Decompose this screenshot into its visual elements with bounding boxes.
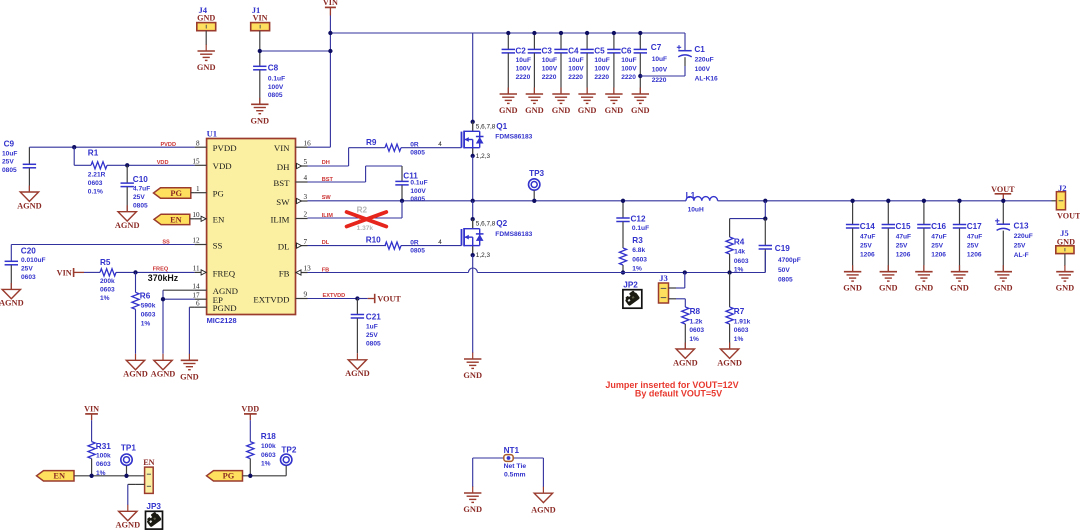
ground under C5 xyxy=(578,88,597,116)
junction J1/C8 xyxy=(258,49,262,53)
net FB wire xyxy=(308,251,766,273)
svg-text:0603: 0603 xyxy=(689,327,704,334)
junction TP3/SW xyxy=(532,199,536,203)
junction SW/C12 xyxy=(621,199,625,203)
capacitor C19 xyxy=(759,219,801,284)
svg-text:FDMS86183: FDMS86183 xyxy=(495,231,532,238)
connector J5 (GND) xyxy=(1056,228,1075,266)
svg-text:0603: 0603 xyxy=(734,258,749,265)
jumper JP2 xyxy=(623,281,642,309)
net VDD wire xyxy=(127,160,194,166)
resistor R7 xyxy=(726,273,751,350)
connector J1 (VIN) xyxy=(251,5,270,51)
svg-text:0.1%: 0.1% xyxy=(88,189,103,196)
svg-text:PGND: PGND xyxy=(213,303,237,313)
svg-text:1.37k: 1.37k xyxy=(357,225,374,232)
connector J4 (GND) xyxy=(197,5,216,45)
svg-text:1%: 1% xyxy=(734,336,744,343)
jumper JP3 xyxy=(145,502,163,529)
svg-text:MIC2128: MIC2128 xyxy=(207,316,237,325)
inductor L1 xyxy=(686,191,718,214)
svg-text:1206: 1206 xyxy=(860,252,875,259)
svg-text:0805: 0805 xyxy=(410,247,425,254)
svg-text:100V: 100V xyxy=(652,67,668,74)
svg-text:10uF: 10uF xyxy=(516,57,531,64)
svg-text:220uF: 220uF xyxy=(695,56,714,63)
svg-text:4: 4 xyxy=(304,174,308,182)
svg-text:25V: 25V xyxy=(366,332,378,339)
svg-text:200k: 200k xyxy=(100,278,115,285)
svg-text:DL: DL xyxy=(278,242,290,252)
svg-text:47uF: 47uF xyxy=(931,234,946,241)
svg-text:10uF: 10uF xyxy=(2,150,17,157)
U1 pin 14 AGND xyxy=(192,282,238,296)
U1 pin 5 DH xyxy=(277,158,308,172)
svg-text:0805: 0805 xyxy=(778,276,793,283)
svg-text:GND: GND xyxy=(915,284,934,293)
ground AGND under C9 xyxy=(17,186,42,211)
svg-text:2220: 2220 xyxy=(594,74,609,81)
capacitor C5 xyxy=(580,33,610,94)
ground AGND under C10 xyxy=(115,205,140,230)
capacitor C12 xyxy=(616,201,649,248)
svg-text:R3: R3 xyxy=(632,236,643,245)
junction rail C6 xyxy=(612,31,616,35)
svg-text:J3: J3 xyxy=(659,273,668,283)
ground GND under PGND xyxy=(180,354,199,382)
svg-text:BST: BST xyxy=(322,177,334,183)
svg-text:R10: R10 xyxy=(366,236,381,245)
svg-text:1.2k: 1.2k xyxy=(690,319,703,326)
svg-text:0805: 0805 xyxy=(268,92,283,99)
svg-text:1206: 1206 xyxy=(931,252,946,259)
svg-text:4700pF: 4700pF xyxy=(778,257,801,264)
svg-text:15: 15 xyxy=(192,158,200,166)
svg-text:FDMS86183: FDMS86183 xyxy=(495,134,532,141)
svg-text:14k: 14k xyxy=(734,249,745,256)
svg-text:Q2: Q2 xyxy=(496,219,507,228)
junction VDD/C10 xyxy=(125,163,129,167)
svg-text:1206: 1206 xyxy=(896,252,911,259)
svg-text:SS: SS xyxy=(213,240,223,250)
svg-text:EN: EN xyxy=(143,458,154,467)
junction rail C15 xyxy=(886,199,890,203)
svg-text:VOUT: VOUT xyxy=(1057,212,1080,221)
net SS wire xyxy=(11,240,194,246)
svg-text:EXTVDD: EXTVDD xyxy=(253,294,289,304)
svg-text:8: 8 xyxy=(196,139,200,147)
junction Q2 drain xyxy=(471,217,475,221)
svg-text:25V: 25V xyxy=(931,243,943,250)
svg-text:10uF: 10uF xyxy=(568,57,583,64)
wire R4/C19 branch xyxy=(730,201,766,219)
svg-text:C8: C8 xyxy=(268,64,279,73)
svg-text:0805: 0805 xyxy=(2,167,17,174)
svg-text:4: 4 xyxy=(438,239,442,246)
svg-text:47uF: 47uF xyxy=(967,234,982,241)
svg-text:1%: 1% xyxy=(141,321,151,328)
svg-text:25V: 25V xyxy=(896,243,908,250)
svg-text:0603: 0603 xyxy=(734,327,749,334)
svg-text:GND: GND xyxy=(180,372,199,381)
capacitor C13 xyxy=(995,201,1033,272)
svg-text:C19: C19 xyxy=(775,244,790,253)
wire Q2 source to GND xyxy=(472,255,474,353)
test point TP3 xyxy=(529,169,545,201)
svg-text:JP2: JP2 xyxy=(623,281,638,290)
svg-text:C1: C1 xyxy=(694,45,705,54)
svg-text:0603: 0603 xyxy=(88,180,103,187)
capacitor C16 xyxy=(917,201,946,272)
svg-text:TP1: TP1 xyxy=(121,444,136,453)
svg-text:GND: GND xyxy=(994,284,1013,293)
capacitor C1 xyxy=(640,33,718,82)
power flag VIN (R31) xyxy=(84,404,99,441)
resistor R3 xyxy=(619,236,647,273)
svg-text:C5: C5 xyxy=(594,46,605,55)
svg-text:DH: DH xyxy=(277,162,290,172)
svg-text:GND: GND xyxy=(605,106,624,115)
svg-text:R2: R2 xyxy=(357,206,368,215)
wire PVDD to R1 xyxy=(74,147,91,165)
junction SW/C11 xyxy=(400,199,404,203)
svg-text:9: 9 xyxy=(304,291,308,299)
ground under C15 xyxy=(879,265,898,293)
svg-text:5,6,7,8: 5,6,7,8 xyxy=(476,221,496,228)
ground AGND at NT1 xyxy=(531,487,556,515)
junction FB/R3 xyxy=(621,270,625,274)
svg-text:ILIM: ILIM xyxy=(270,214,289,224)
junction rail C14 xyxy=(850,199,854,203)
junction FB/J3 xyxy=(683,270,687,274)
svg-text:100V: 100V xyxy=(568,66,584,73)
resistor R31 xyxy=(88,442,111,478)
svg-text:GND: GND xyxy=(1056,284,1075,293)
svg-text:C6: C6 xyxy=(621,46,632,55)
net FREQ wire xyxy=(116,266,195,283)
wire BST to C11 xyxy=(308,166,403,183)
net tie NT1 symbol xyxy=(504,446,527,478)
wire ILIM xyxy=(308,201,403,219)
capacitor C2 xyxy=(502,33,532,94)
power flag VDD xyxy=(241,404,259,441)
svg-text:BST: BST xyxy=(273,178,290,188)
junction FREQ/R6 xyxy=(133,270,137,274)
U1 pin 15 VDD xyxy=(192,158,231,172)
svg-text:TP2: TP2 xyxy=(281,445,296,454)
svg-text:100V: 100V xyxy=(268,84,284,91)
resistor R8 xyxy=(682,307,705,349)
junction rail C17 xyxy=(957,199,961,203)
svg-text:VDD: VDD xyxy=(213,161,232,171)
svg-text:SW: SW xyxy=(322,195,332,201)
svg-text:1%: 1% xyxy=(261,461,271,468)
svg-text:C3: C3 xyxy=(542,46,553,55)
svg-text:2220: 2220 xyxy=(542,74,557,81)
wire VIN rail xyxy=(330,32,685,34)
net tie NT1 wires xyxy=(473,458,544,487)
ground under C4 xyxy=(552,88,571,116)
svg-text:16: 16 xyxy=(304,139,312,147)
net PVDD wire xyxy=(29,142,194,148)
svg-text:EN: EN xyxy=(53,472,65,481)
junction VOUT/R4C19 xyxy=(763,199,767,203)
svg-text:SS: SS xyxy=(162,240,170,246)
svg-text:AGND: AGND xyxy=(345,369,370,378)
svg-text:PG: PG xyxy=(170,189,182,198)
capacitor C10 xyxy=(121,165,151,211)
capacitor C17 xyxy=(953,201,982,272)
svg-text:0603: 0603 xyxy=(261,452,276,459)
svg-text:0.1uF: 0.1uF xyxy=(268,76,285,83)
svg-text:100k: 100k xyxy=(261,443,276,450)
svg-text:3: 3 xyxy=(304,193,308,201)
svg-text:VDD: VDD xyxy=(157,160,169,166)
svg-text:J5: J5 xyxy=(1060,228,1069,238)
svg-text:C4: C4 xyxy=(568,46,579,55)
connector J3 xyxy=(659,273,677,303)
wire J1 node to VIN rail xyxy=(260,50,331,52)
svg-text:R7: R7 xyxy=(734,307,745,316)
svg-text:0603: 0603 xyxy=(141,312,156,319)
wire AGND/EP pins xyxy=(163,290,195,354)
svg-text:0R: 0R xyxy=(410,142,419,149)
svg-text:AGND: AGND xyxy=(531,506,556,515)
junction EXTVDD/C21 xyxy=(355,296,359,300)
svg-text:DH: DH xyxy=(322,160,330,166)
ground AGND under R8 xyxy=(673,343,698,368)
ground under C2 xyxy=(499,88,518,116)
U1 pin 2 ILIM xyxy=(270,211,307,225)
svg-text:25V: 25V xyxy=(2,159,14,166)
svg-text:By default VOUT=5V: By default VOUT=5V xyxy=(635,389,722,399)
svg-text:11: 11 xyxy=(193,265,200,273)
port PG harpoon xyxy=(154,188,195,198)
net EXTVDD wire xyxy=(308,293,358,299)
U1 pin 7 DL xyxy=(278,238,308,252)
junction C7/C1 bottom xyxy=(638,74,642,78)
capacitor C15 xyxy=(882,201,911,272)
svg-text:AL-F: AL-F xyxy=(1014,252,1029,259)
svg-text:GND: GND xyxy=(250,116,269,125)
svg-text:GND: GND xyxy=(578,106,597,115)
port VOUT stub at EXTVDD xyxy=(357,294,401,304)
ground AGND under C20 xyxy=(0,283,24,308)
svg-text:100V: 100V xyxy=(410,188,426,195)
svg-text:ILIM: ILIM xyxy=(322,213,334,219)
U1 pin 11 FREQ xyxy=(193,265,236,279)
junction rail C2 xyxy=(506,31,510,35)
svg-text:7: 7 xyxy=(304,238,308,246)
port PG harpoon (bottom) xyxy=(207,471,243,481)
svg-text:47uF: 47uF xyxy=(896,234,911,241)
svg-text:C7: C7 xyxy=(651,43,662,52)
svg-text:TP3: TP3 xyxy=(529,169,544,178)
resistor R18 xyxy=(247,432,277,476)
svg-text:VIN: VIN xyxy=(274,143,290,153)
svg-text:C12: C12 xyxy=(631,214,646,223)
power flag VOUT xyxy=(991,185,1015,201)
capacitor C14 xyxy=(846,201,875,272)
ground AGND under R7 xyxy=(717,343,742,368)
ground AGND bottom-left xyxy=(115,505,140,530)
svg-text:AGND: AGND xyxy=(717,358,742,367)
ground under C14 xyxy=(843,265,862,293)
test point TP1 xyxy=(121,444,137,476)
ground under NT1 xyxy=(463,487,482,515)
svg-text:C20: C20 xyxy=(21,246,36,255)
svg-text:R1: R1 xyxy=(88,148,99,157)
op-amp U1 MIC2128 body xyxy=(207,129,296,325)
svg-text:4.7uF: 4.7uF xyxy=(133,186,150,193)
svg-text:FREQ: FREQ xyxy=(213,268,236,278)
junction VIN rail x330 y33 xyxy=(328,31,332,35)
svg-text:GND: GND xyxy=(843,284,862,293)
svg-text:13: 13 xyxy=(304,265,312,273)
svg-text:U1: U1 xyxy=(207,129,218,139)
svg-text:10uF: 10uF xyxy=(542,57,557,64)
junction FB/R4 xyxy=(727,270,731,274)
svg-text:2220: 2220 xyxy=(621,74,636,81)
svg-text:SW: SW xyxy=(276,197,290,207)
svg-text:12: 12 xyxy=(192,237,200,245)
U1 pin 16 VIN xyxy=(274,139,311,153)
svg-text:1%: 1% xyxy=(100,295,110,302)
U1 pin 9 EXTVDD xyxy=(253,291,307,305)
svg-text:10uH: 10uH xyxy=(688,207,704,214)
wire PG net xyxy=(243,475,287,477)
junction EN/TP1 xyxy=(124,474,128,478)
junction rail C3 xyxy=(532,31,536,35)
ground under Q2 xyxy=(463,353,482,381)
svg-text:GND: GND xyxy=(525,106,544,115)
svg-text:25V: 25V xyxy=(860,243,872,250)
svg-text:Net Tie: Net Tie xyxy=(504,463,527,470)
svg-text:220uF: 220uF xyxy=(1014,233,1033,240)
svg-text:EN: EN xyxy=(170,215,182,224)
svg-text:10uF: 10uF xyxy=(621,57,636,64)
svg-text:R5: R5 xyxy=(100,258,111,267)
ground under J4 xyxy=(197,45,216,73)
svg-text:C21: C21 xyxy=(366,312,381,321)
svg-text:R31: R31 xyxy=(96,442,111,451)
junction Q2 source xyxy=(471,253,475,257)
svg-text:4: 4 xyxy=(438,141,442,148)
svg-text:GND: GND xyxy=(552,106,571,115)
wire EN header pin2 to AGND xyxy=(128,484,136,505)
svg-text:VIN: VIN xyxy=(323,0,338,7)
svg-text:R8: R8 xyxy=(690,307,701,316)
junction rail C16 xyxy=(922,199,926,203)
svg-text:AGND: AGND xyxy=(151,370,176,379)
svg-text:EN: EN xyxy=(213,215,225,225)
svg-text:L1: L1 xyxy=(686,191,696,200)
svg-text:2.21R: 2.21R xyxy=(88,172,106,179)
capacitor C6 xyxy=(607,33,637,94)
svg-text:GND: GND xyxy=(197,63,216,72)
svg-text:47uF: 47uF xyxy=(860,234,875,241)
svg-text:14: 14 xyxy=(192,282,200,290)
svg-text:17: 17 xyxy=(192,291,200,299)
svg-text:R18: R18 xyxy=(261,432,276,441)
svg-text:1: 1 xyxy=(196,185,200,193)
svg-text:AGND: AGND xyxy=(0,299,24,308)
capacitor C8 xyxy=(253,51,285,104)
svg-text:GND: GND xyxy=(879,284,898,293)
U1 pin 17 EP xyxy=(192,291,223,305)
svg-text:2: 2 xyxy=(304,211,308,219)
svg-text:6.8k: 6.8k xyxy=(632,247,645,254)
svg-text:R4: R4 xyxy=(734,237,745,246)
svg-text:1,2,3: 1,2,3 xyxy=(476,252,491,259)
svg-text:10uF: 10uF xyxy=(652,56,667,63)
ground under C6 xyxy=(605,88,624,116)
junction rail C5 xyxy=(585,31,589,35)
port VIN stub at R5 xyxy=(57,268,100,277)
svg-text:VOUT: VOUT xyxy=(991,185,1015,194)
resistor R2 (deleted, crossed out) xyxy=(347,206,387,232)
svg-text:10: 10 xyxy=(192,211,200,219)
port EN harpoon (bottom) xyxy=(37,471,75,481)
capacitor C11 xyxy=(395,166,427,203)
svg-text:DL: DL xyxy=(322,240,330,246)
svg-text:1%: 1% xyxy=(632,266,642,273)
svg-text:0805: 0805 xyxy=(366,341,381,348)
svg-text:AL-K16: AL-K16 xyxy=(695,75,718,82)
svg-text:0.1uF: 0.1uF xyxy=(410,180,427,187)
wire PGND pin xyxy=(189,307,194,354)
svg-text:1uF: 1uF xyxy=(366,323,378,330)
U1 pin 12 SS xyxy=(192,237,222,251)
junction C19 top xyxy=(763,216,767,220)
resistor R6 xyxy=(132,272,156,353)
transistor Q1 FDMS86183 xyxy=(462,122,533,160)
junction SW node xyxy=(471,199,475,203)
junction EN/R31 xyxy=(89,474,93,478)
svg-text:0603: 0603 xyxy=(632,256,647,263)
svg-text:Q1: Q1 xyxy=(496,122,507,131)
wire DH to R9 xyxy=(308,148,386,167)
junction rail C4 xyxy=(559,31,563,35)
svg-text:50V: 50V xyxy=(778,267,790,274)
capacitor C20 xyxy=(5,245,46,290)
ground AGND under C21 xyxy=(345,353,370,378)
svg-text:0603: 0603 xyxy=(96,461,111,468)
svg-text:AGND: AGND xyxy=(123,370,148,379)
svg-text:C9: C9 xyxy=(4,140,15,149)
svg-text:GND: GND xyxy=(631,106,650,115)
svg-text:C14: C14 xyxy=(860,222,875,231)
junction Q1 drain xyxy=(471,120,475,124)
svg-text:PG: PG xyxy=(223,472,235,481)
resistor R1 xyxy=(88,148,127,195)
note jumper text xyxy=(605,380,738,399)
svg-text:0805: 0805 xyxy=(410,149,425,156)
svg-text:FREQ: FREQ xyxy=(153,266,169,272)
junction VOUT flag xyxy=(1001,199,1005,203)
svg-text:0603: 0603 xyxy=(21,274,36,281)
ground under C3 xyxy=(525,88,544,116)
junction EP xyxy=(161,297,165,301)
svg-text:0603: 0603 xyxy=(100,286,115,293)
svg-text:GND: GND xyxy=(463,505,482,514)
svg-text:NT1: NT1 xyxy=(504,446,520,455)
net SW wire xyxy=(308,195,687,201)
capacitor C3 xyxy=(528,33,558,94)
wire Q1 drain xyxy=(472,33,474,122)
svg-text:VDD: VDD xyxy=(241,404,259,413)
resistor R5 xyxy=(100,258,116,302)
